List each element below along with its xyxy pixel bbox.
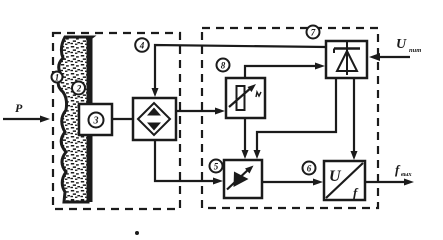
- wire: block 3 to diamond block: [112, 118, 133, 120]
- dashed enclosure: left unit (primary transducer): [53, 33, 180, 209]
- label circle 7: [307, 26, 320, 39]
- wire: diamond block right to block 8: [176, 108, 225, 115]
- svg-text:8: 8: [221, 61, 226, 71]
- svg-text:7: 7: [311, 28, 316, 38]
- wire: diamond block bottom to block 5: [155, 140, 223, 185]
- svg-text:5: 5: [214, 162, 219, 172]
- sensor strip right border (thick): [89, 37, 93, 202]
- svg-text:P: P: [15, 101, 23, 115]
- svg-text:6: 6: [307, 164, 312, 174]
- svg-text:U: U: [396, 37, 407, 52]
- wire: block 8 top to stabilizer block 7: [245, 63, 325, 79]
- input arrow P: [3, 101, 50, 123]
- label circle 5: [210, 160, 223, 173]
- supply input U pit: [369, 37, 421, 61]
- wire: stabilizer block 7 to diamond block top (supply line): [155, 45, 326, 90]
- svg-text:4: 4: [139, 41, 145, 51]
- label circle 2: [72, 82, 85, 95]
- block 8: adjustable resistor (trimmer): [226, 78, 265, 118]
- svg-text:U: U: [329, 168, 342, 185]
- label circle 6: [303, 162, 316, 175]
- output arrow f out: [365, 162, 414, 186]
- svg-text:2: 2: [76, 84, 82, 94]
- block 4: bridge/comparator box with diamond symbol: [133, 98, 176, 140]
- wire: block 5 to U/f converter: [262, 179, 323, 186]
- block 6: U/f converter: [324, 161, 365, 200]
- label circle 1: [52, 72, 63, 83]
- svg-text:3: 3: [93, 116, 99, 127]
- wire: block 8 bottom to block 5 top: [242, 118, 249, 159]
- svg-text:вых: вых: [401, 171, 412, 178]
- wire: block 7 bottom-right to U/f converter top: [351, 78, 358, 160]
- stray scan dot: [135, 231, 139, 235]
- sensor element: liquid/porous column (stippled strip with wavy edge): [58, 37, 92, 202]
- block 3: pickup element: [79, 104, 112, 135]
- svg-text:пит: пит: [409, 47, 421, 54]
- block 7: voltage stabilizer (zener symbol): [326, 41, 367, 78]
- block 5: controlled amplifier/modulator: [224, 160, 262, 198]
- dashed enclosure: right unit (electronic converter): [202, 28, 378, 208]
- svg-text:1: 1: [55, 73, 60, 83]
- label circle 8: [217, 59, 230, 72]
- label circle 4: [135, 38, 149, 52]
- wire: block 7 bottom-left to block 5 top (jog): [254, 78, 337, 159]
